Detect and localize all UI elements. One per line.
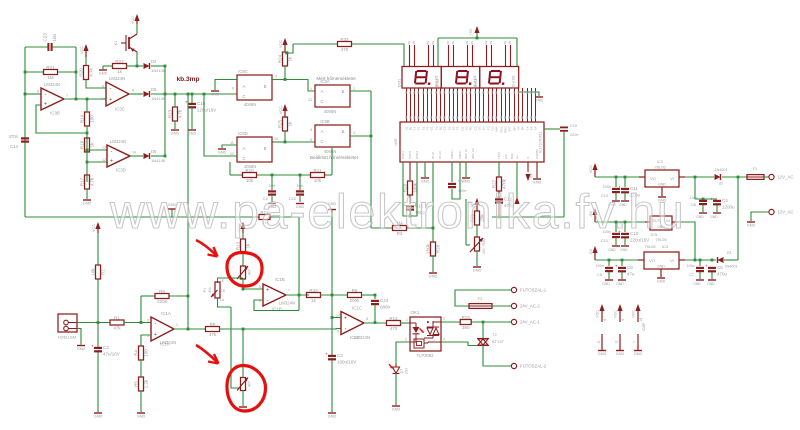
wire R24 leads (284, 51, 286, 80)
wire R24 node to IC8A pin1 (285, 80, 315, 92)
ground LED (392, 406, 401, 412)
svg-text:470: 470 (390, 326, 398, 331)
svg-text:7: 7 (66, 94, 68, 98)
node junction C10 top (624, 221, 627, 224)
wire R19 leads (86, 99, 88, 150)
resistor R27 (492, 162, 507, 191)
svg-text:VCC: VCC (596, 310, 600, 318)
svg-text:FUTOSZAL-1: FUTOSZAL-1 (520, 288, 547, 293)
svg-text:VCC: VCC (279, 106, 283, 114)
switch IC8D (237, 131, 272, 169)
wire IC8A output (350, 90, 371, 92)
ground displays (535, 97, 544, 103)
node junction IC1C plus (331, 316, 334, 319)
svg-text:GND: GND (328, 415, 337, 419)
svg-text:+: + (91, 344, 94, 349)
svg-text:DIS1: DIS1 (398, 79, 402, 87)
svg-text:1: 1 (176, 323, 178, 327)
svg-text:K1: K1 (114, 41, 118, 46)
svg-text:1N4148: 1N4148 (151, 158, 166, 163)
label kb.3mp (176, 76, 199, 83)
svg-text:TEST: TEST (497, 151, 501, 159)
svg-text:3: 3 (147, 319, 149, 323)
resistor R5 (134, 377, 149, 412)
wire IC4 to D3 (685, 259, 716, 261)
ground IC8C (211, 91, 220, 97)
svg-text:78L05: 78L05 (654, 165, 666, 170)
resistor R22 (113, 59, 127, 74)
svg-text:C: C (242, 94, 245, 99)
svg-text:+: + (325, 352, 328, 357)
svg-text:10n: 10n (52, 33, 57, 41)
svg-text:E4: E4 (534, 126, 538, 130)
resistor R20 (79, 66, 94, 80)
wire R23 leads (174, 94, 176, 129)
svg-text:10: 10 (274, 137, 278, 141)
svg-text:R10: R10 (245, 168, 254, 173)
wire R9 to IC1C (219, 328, 341, 331)
svg-text:IC3D: IC3D (116, 168, 126, 173)
svg-text:4066N: 4066N (324, 109, 336, 114)
display DIS3 box (474, 67, 519, 89)
svg-text:GND: GND (218, 151, 227, 155)
svg-text:7: 7 (632, 341, 636, 343)
svg-text:IC2: IC2 (657, 159, 664, 164)
display DIS2 box (436, 67, 480, 89)
diode D6 (144, 149, 166, 163)
power VCC arrow rail1 (589, 163, 598, 177)
wire IC8B output (350, 135, 371, 137)
svg-text:F2: F2 (478, 296, 483, 301)
wire R20 top (85, 57, 87, 65)
wire IC1A output (174, 328, 206, 330)
capacitor C22 (289, 175, 304, 202)
svg-text:200k: 200k (350, 298, 361, 303)
wire CREF loop (452, 162, 460, 199)
svg-text:R32: R32 (340, 37, 349, 42)
svg-text:GND: GND (657, 280, 666, 284)
fuse F2 (469, 296, 492, 308)
wire IC1B feedback (254, 295, 309, 311)
svg-text:R25: R25 (278, 119, 283, 128)
svg-text:14: 14 (132, 151, 136, 155)
node junction IC1B fb (298, 294, 301, 297)
ground C12 (608, 246, 620, 252)
analog switch IC8C (237, 69, 272, 107)
node junction rail3 mid (694, 259, 697, 262)
svg-text:250: 250 (482, 248, 486, 254)
svg-text:+: + (109, 97, 112, 103)
wire IC3B plus loop (36, 105, 87, 133)
svg-text:680n: 680n (380, 305, 391, 310)
ground near long rail (168, 203, 177, 217)
wire C3 column (332, 295, 342, 412)
capacitor C5 (705, 264, 727, 280)
svg-text:C23: C23 (43, 33, 48, 42)
resistor R1 (110, 315, 124, 330)
pin label 8 (232, 87, 234, 91)
svg-text:+: + (344, 315, 347, 321)
wire IC gnd stub 1 (424, 162, 426, 177)
svg-text:100: 100 (90, 115, 95, 123)
power VCC pin stub 2 (614, 304, 625, 322)
svg-text:CREF-: CREF- (458, 150, 462, 159)
node junction C23/R21 left (24, 71, 27, 74)
svg-text:FUTOSZAL-2: FUTOSZAL-2 (520, 364, 547, 369)
svg-text:13: 13 (102, 146, 106, 150)
power arrow rail3 (589, 246, 598, 260)
digit 8 DIS2 (455, 70, 477, 89)
display to IC pin bus (406, 88, 536, 122)
wire R33 to R6 (320, 294, 348, 296)
svg-text:R8: R8 (159, 289, 165, 294)
wire D4 row (127, 65, 166, 67)
capacitor C1 (263, 175, 276, 202)
wire sensor pin2 to gnd (77, 329, 81, 345)
trimmer R30 (470, 237, 486, 254)
svg-text:GND: GND (696, 215, 704, 219)
svg-text:GND: GND (83, 202, 92, 206)
display DIS1 box (398, 67, 442, 89)
label IC8P (642, 322, 646, 331)
pin labels IC8A (308, 87, 355, 102)
resistor R15 (460, 315, 471, 330)
svg-text:D3: D3 (727, 251, 732, 255)
svg-text:D7: D7 (400, 369, 404, 374)
svg-text:1: 1 (310, 87, 312, 91)
wire R10 R11 row (230, 174, 332, 176)
node junction output feedback (187, 328, 190, 331)
svg-text:C9: C9 (627, 265, 633, 270)
wire IC gnd stub 3 (536, 162, 538, 178)
node junction switch feed (203, 93, 206, 96)
svg-text:R23: R23 (168, 109, 173, 118)
wire R22 left to ground (103, 66, 113, 69)
svg-text:+: + (710, 197, 713, 202)
digit 8 DIS3 (488, 70, 516, 89)
svg-text:U2: U2 (719, 182, 724, 186)
svg-text:R28: R28 (436, 244, 441, 253)
transistor K1 (114, 24, 137, 66)
svg-text:IC3C: IC3C (115, 107, 125, 112)
node junction C24 bottom (374, 321, 377, 324)
diode D4 (144, 59, 166, 73)
svg-text:VCC: VCC (632, 310, 636, 318)
svg-text:5: 5 (259, 285, 261, 289)
ground C22 (296, 204, 305, 210)
wire IC1C out to R14 (364, 322, 387, 324)
ground pin stub 2 (614, 334, 624, 356)
wire IC gnd stub 2 (465, 162, 467, 177)
trimmer upper (237, 266, 252, 279)
node junction C8 top (608, 259, 611, 262)
svg-text:VCC: VCC (80, 46, 84, 54)
op-amp IC3B (37, 82, 68, 116)
svg-text:IC8D: IC8D (238, 131, 248, 136)
svg-text:C12: C12 (601, 239, 608, 243)
svg-text:+: + (266, 288, 269, 294)
ground IC8D (218, 149, 227, 155)
wire IC1A plus input (141, 335, 151, 346)
wire IC3B minus input (25, 93, 41, 95)
svg-text:1N4148: 1N4148 (151, 96, 166, 101)
svg-text:1.2k: 1.2k (144, 379, 149, 388)
svg-text:10k: 10k (246, 178, 254, 183)
svg-text:100: 100 (144, 349, 149, 357)
ground pin stub 3 (632, 334, 642, 356)
wire P1 bottom (218, 298, 232, 307)
svg-text:Mért hőmérsékletet: Mért hőmérsékletet (316, 76, 356, 81)
power VCC arrow R24 (279, 38, 288, 51)
svg-text:VCC: VCC (589, 165, 593, 173)
annotation circle upper (227, 252, 262, 286)
svg-text:GND: GND (188, 132, 197, 136)
svg-text:4: 4 (621, 319, 625, 321)
mux output column (370, 91, 372, 228)
svg-text:HOELLEM: HOELLEM (58, 336, 76, 340)
svg-text:R17: R17 (80, 177, 85, 186)
capacitor C10 (618, 222, 649, 245)
connector 12V_AC bottom (769, 209, 794, 214)
wire fuse to 24V_AC-2 (492, 305, 511, 307)
wire R20 bottom to IC3C minus (86, 80, 106, 88)
LED D7 (389, 364, 409, 374)
svg-text:10: 10 (336, 314, 340, 318)
wire long ground rail (25, 217, 299, 295)
svg-text:D6: D6 (151, 149, 157, 154)
resistor R2 (91, 265, 106, 279)
svg-text:VCC: VCC (92, 224, 96, 232)
svg-text:ICL7107CPL1: ICL7107CPL1 (539, 131, 543, 152)
svg-text:kb.3mp: kb.3mp (176, 76, 199, 83)
svg-text:zöld: zöld (405, 368, 409, 374)
svg-text:1E: 1E (220, 279, 224, 283)
resistor R9 (206, 322, 220, 337)
wire D5 node to IC8D (204, 94, 237, 156)
svg-text:GND: GND (77, 347, 86, 351)
node junction C5 (711, 259, 714, 262)
ground C15 (188, 130, 197, 136)
annotation circle lower (227, 365, 266, 411)
svg-text:R30: R30 (482, 239, 486, 246)
svg-text:GND: GND (462, 180, 471, 184)
connector 24V_AC-1 (511, 319, 540, 324)
ground R30 (473, 267, 482, 273)
wire IC8D pin10 row (272, 141, 315, 143)
svg-text:C: C (242, 156, 245, 161)
svg-text:4.7k: 4.7k (178, 109, 183, 118)
node junction C7 (699, 259, 702, 262)
pin labels IC8D (230, 137, 278, 156)
switch IC8A (315, 79, 350, 114)
svg-text:GND: GND (473, 269, 482, 273)
resistor R10 (243, 168, 257, 183)
svg-text:R14: R14 (389, 316, 398, 321)
svg-text:B4: B4 (521, 126, 525, 130)
svg-text:150k: 150k (426, 243, 431, 254)
svg-text:C6: C6 (691, 203, 696, 207)
resistor R17 (80, 175, 95, 189)
svg-text:IN HI: IN HI (431, 152, 435, 159)
wire sensor to R1 (77, 322, 110, 324)
IC U$5 ICL7107 (394, 122, 544, 162)
svg-text:11: 11 (230, 141, 234, 145)
svg-text:+5V: +5V (469, 28, 473, 35)
optocoupler OK1 TLP3062 (410, 310, 441, 358)
capacitor C8 (596, 260, 613, 279)
svg-text:HD-H101: HD-H101 (435, 75, 439, 89)
node junction plus loop (86, 132, 89, 135)
power VCC arrow R13 (237, 222, 246, 233)
watermark text (109, 186, 686, 239)
node junction R8 right (187, 295, 190, 298)
wire AC return (751, 212, 769, 221)
resistor R14 (387, 316, 401, 331)
svg-text:GND: GND (616, 352, 625, 356)
wire R11 stub up (331, 147, 333, 175)
node junction signal tap (187, 93, 190, 96)
potentiometer P1 (203, 279, 225, 302)
svg-text:470u: 470u (717, 272, 728, 277)
pin labels OK1 (405, 317, 445, 342)
svg-text:GND: GND (608, 248, 616, 252)
display top pins (409, 41, 511, 66)
wire rail2 (595, 221, 650, 223)
svg-text:4.7k: 4.7k (89, 68, 94, 77)
resistor R28 (426, 228, 441, 272)
regulator IC5 79L05 (645, 216, 678, 242)
ground R22 (99, 70, 108, 76)
svg-text:1k: 1k (246, 243, 251, 249)
svg-text:13: 13 (308, 98, 312, 102)
svg-text:A: A (321, 129, 324, 134)
svg-text:2: 2 (353, 87, 355, 91)
wire R3 row (371, 227, 433, 229)
node junction bridge top (694, 176, 697, 179)
svg-text:C: C (320, 99, 323, 104)
node junction feedback/output (75, 98, 78, 101)
diode U2 1N4001 (715, 174, 721, 180)
svg-text:Beállított hőmérsékletet: Beállított hőmérsékletet (310, 155, 359, 160)
wire IC3D plus input (87, 161, 107, 163)
svg-text:B: B (264, 146, 267, 151)
connector FUTOSZAL-1 (511, 287, 546, 292)
capacitor C15 (185, 94, 216, 129)
svg-text:R24: R24 (278, 54, 283, 63)
svg-text:IC8B: IC8B (320, 119, 330, 124)
ground C10 (620, 246, 629, 252)
wire R10 stub up (229, 162, 231, 175)
node junction R24 bottom (284, 78, 287, 81)
svg-text:R18: R18 (80, 140, 85, 149)
wire fuse to connector (764, 176, 769, 178)
svg-text:V+: V+ (515, 155, 519, 159)
svg-text:1S: 1S (221, 289, 225, 293)
resistor R24 (278, 52, 293, 66)
resistor R13 (236, 239, 251, 253)
svg-text:9: 9 (275, 75, 277, 79)
svg-text:www.pa-elektronika.fv.hu: www.pa-elektronika.fv.hu (109, 186, 686, 239)
svg-text:6: 6 (443, 317, 445, 321)
svg-text:GND: GND (616, 282, 624, 286)
ground C4 (710, 213, 721, 219)
wire feedback column (75, 47, 77, 99)
ground C6 (696, 213, 707, 219)
resistor R11 (311, 168, 325, 183)
svg-text:4: 4 (443, 338, 445, 342)
svg-text:D5: D5 (151, 87, 157, 92)
wire IC8C top-left pin to ground (215, 80, 237, 91)
svg-text:REF HI: REF HI (464, 149, 468, 159)
svg-text:GND: GND (747, 224, 756, 228)
wire R25 leads (284, 117, 286, 142)
svg-text:A: A (243, 84, 246, 89)
svg-text:BT137: BT137 (492, 339, 505, 344)
svg-text:8: 8 (232, 87, 234, 91)
wire R14 to OK1 (400, 322, 410, 324)
svg-text:R5: R5 (134, 381, 139, 387)
svg-text:VO: VO (650, 176, 656, 181)
wire triac to FUTOSZAL-2 (483, 346, 511, 367)
connector 12V_AC top (769, 174, 794, 179)
svg-text:IC1C: IC1C (352, 306, 362, 311)
diode D3 1N4001 (718, 257, 724, 263)
svg-text:R33: R33 (309, 288, 318, 293)
label U2 (714, 168, 727, 186)
svg-text:GND: GND (710, 215, 718, 219)
svg-text:A/Z: A/Z (504, 154, 508, 159)
svg-text:14: 14 (639, 318, 643, 322)
svg-text:GND: GND (137, 415, 146, 419)
svg-text:V-: V- (526, 156, 530, 159)
wire oscillator loop (403, 162, 417, 216)
capacitor C9 (615, 260, 635, 279)
node junction R19 top (86, 98, 89, 101)
svg-text:IC8C: IC8C (238, 69, 248, 74)
svg-text:4k7: 4k7 (248, 269, 252, 275)
ground C9 (616, 280, 626, 286)
wire OK1 cathode to LED (396, 342, 410, 364)
svg-text:R20: R20 (79, 68, 84, 77)
ground C11 (619, 201, 629, 207)
svg-text:OSC1: OSC1 (401, 150, 405, 159)
svg-text:GND: GND (620, 248, 628, 252)
svg-text:11: 11 (614, 340, 618, 344)
triac T2 (477, 322, 505, 346)
power VCC pin stub 3 (632, 304, 643, 322)
svg-text:220n: 220n (570, 133, 578, 137)
svg-text:100n: 100n (687, 264, 695, 268)
switch IC8B (315, 119, 350, 154)
capacitor C11 (618, 177, 640, 200)
svg-text:LM324N: LM324N (279, 301, 295, 306)
svg-text:GND: GND (634, 352, 643, 356)
svg-text:220u/16V: 220u/16V (197, 108, 216, 113)
svg-text:A: A (321, 89, 324, 94)
wire D5 to switch section (151, 93, 237, 95)
resistor R33 (307, 288, 321, 303)
svg-text:GND: GND (657, 265, 665, 269)
wire R21 row (25, 71, 76, 73)
label mert homersekletet (316, 76, 356, 81)
ground top-left column (83, 200, 92, 206)
pin label 9 (275, 75, 277, 79)
node junction D4 bus (164, 65, 167, 68)
node junction C1 top (271, 174, 274, 177)
capacitor C14 (8, 134, 29, 149)
svg-text:U$5: U$5 (394, 139, 398, 146)
wire rail1 (595, 176, 639, 178)
